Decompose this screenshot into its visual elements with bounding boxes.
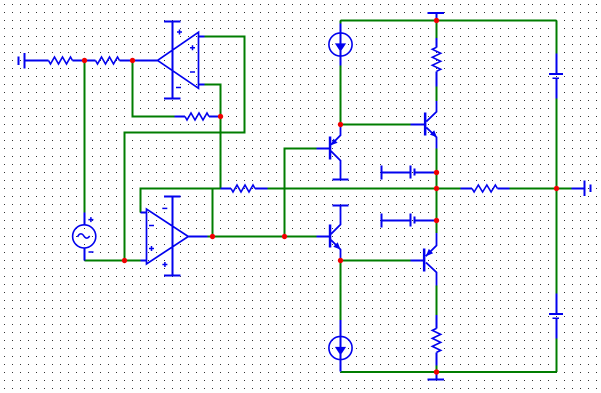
current source I1 bbox=[329, 24, 352, 66]
pin U1 output stub top bbox=[199, 36, 205, 38]
transistor Q4 PNP right-bottom bbox=[411, 233, 437, 286]
current source I2 bbox=[329, 320, 352, 372]
V2 sine bbox=[78, 234, 90, 238]
op-amp U2 bbox=[141, 197, 208, 276]
U1 power rail bbox=[172, 22, 174, 99]
U2 power plus label bbox=[162, 262, 167, 267]
wire node right to Q3 base bbox=[341, 124, 411, 126]
transistor Q3 NPN right-top bbox=[411, 101, 437, 149]
U2 minus input label bbox=[149, 225, 154, 227]
wire feedback node down to mid rail bbox=[220, 117, 222, 189]
pin U2 output stub bbox=[188, 236, 207, 238]
node input junction B bbox=[130, 58, 135, 63]
wire Q3 emitter down to battery node bbox=[436, 149, 438, 173]
wire node B to U1 bbox=[133, 60, 158, 62]
transistor Q1 PNP left-top bbox=[317, 125, 349, 180]
resistor R7 output bbox=[461, 185, 510, 192]
node B1 emitter Q3 bbox=[434, 170, 439, 175]
wire top terminal node down to R5 bbox=[436, 21, 438, 39]
wire I1 output down to node bbox=[340, 66, 342, 125]
wire U1 inverting stub right to feedback node bbox=[205, 85, 221, 117]
wire output node up across rail to Q1 base bbox=[285, 149, 317, 237]
resistor R5 top right bbox=[432, 38, 440, 87]
wire AC source output right to U2 input bbox=[85, 260, 141, 262]
U1 power minus label bbox=[176, 87, 181, 89]
node bottom terminal bbox=[434, 369, 439, 374]
node I1 Q1 Q3 bbox=[338, 122, 343, 127]
U2 power rail bbox=[172, 197, 174, 276]
wire top rail corner down to current source I1 bbox=[340, 21, 342, 24]
B1 short plate bbox=[414, 169, 416, 176]
node I2 Q2 Q4 bbox=[338, 258, 343, 263]
terminal bar of Q1 collector bbox=[333, 179, 349, 181]
B2 long plate bbox=[410, 214, 412, 227]
node B2 emitter Q4 bbox=[434, 218, 439, 223]
terminal output right bbox=[572, 181, 591, 197]
node output right bbox=[554, 186, 559, 191]
resistor R3 feedback of U1 bbox=[175, 113, 221, 120]
wire lower node down to current source I2 bbox=[340, 261, 342, 321]
resistor R4 feedback of U2 bbox=[221, 185, 268, 192]
node U2 output bbox=[210, 234, 215, 239]
node top terminal bbox=[434, 18, 439, 23]
wire op-amp U1 output crossover to U2 noninverting input bbox=[125, 37, 245, 261]
terminal T2 bottom supply bbox=[428, 372, 445, 380]
resistor R6 bottom right bbox=[432, 315, 440, 366]
wire top rail bbox=[341, 20, 557, 22]
wire mid rail right of output resistor bbox=[510, 188, 572, 190]
battery V1 input: short plate bbox=[18, 57, 20, 66]
U2 plus input label bbox=[149, 246, 154, 251]
wire lower node right to Q4 base bbox=[341, 260, 411, 262]
node mid rail bbox=[434, 186, 439, 191]
node feedback R3 right bbox=[218, 114, 223, 119]
wire U2 output line right to Q2 base bbox=[208, 236, 317, 238]
terminal T1 top supply bbox=[428, 13, 445, 21]
V2 minus label bbox=[89, 251, 94, 253]
B1 long plate bbox=[410, 166, 412, 179]
wire U2 feedback box: input up, top edge right bbox=[141, 189, 221, 213]
wire right side vertical segments bbox=[556, 21, 558, 54]
wire V1 to R1 bbox=[26, 60, 49, 62]
resistor R2 bbox=[85, 60, 96, 62]
wire U2 feedback box right side down to output node bbox=[212, 189, 214, 237]
B1 open terminal bar bbox=[381, 166, 383, 180]
B2 open terminal bar bbox=[381, 214, 383, 228]
AC source V2 bbox=[73, 213, 96, 261]
transistor Q2 NPN left-bottom bbox=[317, 206, 349, 261]
wire R6 bottom to bottom rail bbox=[436, 366, 438, 373]
wire mid rail bbox=[268, 188, 461, 190]
pin U2 inverting stub bbox=[141, 212, 147, 214]
battery B4 right bottom bbox=[549, 294, 563, 339]
wire right column through rail node bbox=[436, 173, 438, 234]
B2 short plate bbox=[414, 217, 416, 224]
U2 power minus label bbox=[162, 207, 167, 209]
op-amp U1 bbox=[158, 22, 205, 99]
wire feedback left: node B down and right to R3 bbox=[133, 61, 175, 117]
resistor R1 bbox=[49, 57, 73, 64]
wire R5 bottom to Q3 collector bbox=[436, 87, 438, 102]
battery V1 input: long plate bbox=[24, 53, 26, 69]
U1 plus input label bbox=[190, 45, 195, 50]
battery B3 right top bbox=[549, 54, 563, 99]
V2 plus label bbox=[88, 217, 93, 222]
wire bottom rail bbox=[341, 371, 557, 373]
node U2 noninverting bbox=[122, 258, 127, 263]
battery B2 horizontal lower bbox=[382, 214, 437, 228]
U1 minus input label bbox=[190, 71, 195, 73]
node driver split bbox=[282, 234, 287, 239]
terminal bar of Q2 collector bbox=[333, 205, 349, 207]
pin U2 noninverting stub bbox=[141, 260, 147, 262]
wire Q4 collector down to R6 bbox=[436, 286, 438, 316]
wire node A down from input junction to AC source V2 bbox=[84, 61, 86, 213]
pin U1 output stub bottom bbox=[199, 84, 205, 86]
battery B1 horizontal upper bbox=[382, 166, 437, 180]
node input junction A bbox=[82, 58, 87, 63]
U1 power plus label bbox=[177, 30, 182, 35]
